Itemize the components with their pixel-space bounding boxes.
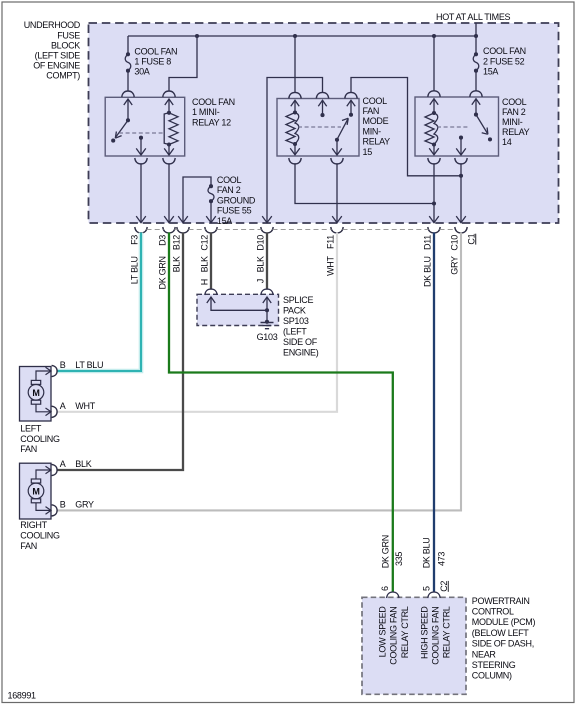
- svg-text:FAN 2: FAN 2: [502, 107, 526, 117]
- relay 15 coil: [290, 100, 300, 155]
- fan M1 pin cups: [52, 365, 58, 417]
- wire H BLK C12 to splice pack: [210, 233, 212, 290]
- svg-text:FAN 2: FAN 2: [217, 185, 241, 195]
- svg-text:FUSE 55: FUSE 55: [217, 206, 252, 216]
- relay 15 NO contact pin: [318, 100, 326, 106]
- svg-text:COOL FAN: COOL FAN: [134, 47, 177, 57]
- svg-text:D3: D3: [157, 235, 167, 246]
- svg-text:B: B: [60, 360, 66, 370]
- relay 12 dashed link: [119, 132, 164, 134]
- svg-text:WHT: WHT: [325, 255, 335, 275]
- fuse F8 (COOL FAN 1 FUSE 8 30A): [125, 52, 131, 72]
- svg-text:2 FUSE 52: 2 FUSE 52: [483, 56, 525, 66]
- relay K12 (COOL FAN 1 MINI-RELAY 12): [105, 97, 185, 156]
- splice pack SP103 box: [197, 294, 279, 325]
- svg-text:RELAY CTRL: RELAY CTRL: [442, 606, 452, 658]
- svg-text:1 MINI-: 1 MINI-: [192, 107, 220, 117]
- relay 12 switch arm: [116, 120, 128, 137]
- svg-text:D11: D11: [422, 235, 432, 250]
- wire B12 to fuse 55 jog: [183, 177, 211, 217]
- svg-text:BLK: BLK: [171, 256, 181, 272]
- svg-text:HOT AT ALL TIMES: HOT AT ALL TIMES: [436, 12, 511, 22]
- junction on bus at x476: [474, 34, 478, 38]
- splice internal arrows: [207, 297, 215, 303]
- underhood fuse block U1 (dashed box, lavender fill): [89, 23, 559, 223]
- fuse F52 (COOL FAN 2 FUSE 52 15A): [473, 52, 479, 72]
- svg-text:(LEFT: (LEFT: [283, 327, 307, 337]
- wire DK BLU D11 to PCM pin 5: [433, 233, 435, 593]
- svg-text:F3: F3: [129, 235, 139, 245]
- junction on bus at x295: [293, 34, 297, 38]
- svg-text:DK GRN: DK GRN: [380, 535, 390, 568]
- svg-text:1 FUSE 8: 1 FUSE 8: [134, 57, 171, 67]
- fuse F55 (COOL FAN 2 GROUND FUSE 55 15A): [208, 184, 214, 203]
- wire J BLK D10 to splice pack: [266, 233, 268, 290]
- svg-text:14: 14: [502, 137, 512, 147]
- svg-text:GROUND: GROUND: [217, 195, 256, 205]
- svg-text:M: M: [32, 487, 39, 497]
- svg-text:5: 5: [421, 586, 431, 591]
- svg-text:LT BLU: LT BLU: [75, 360, 103, 370]
- wire WHT F11 to left fan A: [58, 233, 338, 412]
- svg-text:GRY: GRY: [449, 256, 459, 275]
- svg-text:DK GRN: DK GRN: [157, 256, 167, 289]
- relay 15 switch arm: [337, 119, 348, 139]
- wire GRY C10 to right fan B: [58, 233, 462, 511]
- relay 14 switch arm: [476, 115, 487, 133]
- svg-text:M: M: [32, 388, 39, 398]
- svg-text:ENGINE): ENGINE): [283, 348, 319, 358]
- relay K15 (COOL FAN MODE MIN-RELAY 15): [277, 99, 359, 157]
- svg-text:POWERTRAIN: POWERTRAIN: [472, 596, 530, 606]
- svg-text:BLOCK: BLOCK: [51, 40, 80, 50]
- svg-text:CONTROL: CONTROL: [472, 607, 514, 617]
- relay 15 NC contact pin: [347, 100, 355, 106]
- splice cup D10 side: [261, 289, 273, 295]
- svg-text:RIGHT: RIGHT: [20, 520, 47, 530]
- splice ground junction dot: [265, 320, 269, 324]
- wire fuse 55 to pin C12: [210, 201, 212, 216]
- svg-text:SP103: SP103: [283, 316, 309, 326]
- svg-text:473: 473: [436, 552, 446, 566]
- connector cups at fuse block border row: [135, 227, 467, 233]
- wire fuse 8 to relay 12 pin: [127, 71, 129, 92]
- wire bus to relay 12 coil (jog): [169, 36, 197, 92]
- relay 14 dashed link: [437, 126, 469, 128]
- wire relay 15 coil- to D11 net: [295, 163, 434, 203]
- relay 14 switch pin: [472, 99, 480, 105]
- wire relay 12 coil- to pin D3: [168, 163, 170, 216]
- relay K14 (COOL FAN 2 MINI-RELAY 14): [415, 97, 499, 156]
- svg-text:J BLK: J BLK: [255, 256, 265, 283]
- svg-text:6: 6: [380, 586, 390, 591]
- fan M2 pin cups: [52, 464, 58, 516]
- svg-text:(LEFT SIDE: (LEFT SIDE: [35, 51, 81, 61]
- junction at (434,203.5): [432, 201, 436, 205]
- svg-text:COOL: COOL: [502, 97, 527, 107]
- bus wire B+: [128, 35, 476, 37]
- wire BLK B12 to right fan A: [58, 233, 184, 471]
- svg-text:C10: C10: [449, 235, 459, 251]
- svg-text:NEAR: NEAR: [472, 649, 497, 659]
- wire bus to relay 15 coil: [294, 36, 296, 93]
- svg-text:UNDERHOOD: UNDERHOOD: [24, 20, 81, 30]
- svg-text:STEERING: STEERING: [472, 660, 516, 670]
- svg-text:RELAY: RELAY: [363, 137, 391, 147]
- wire LT BLU F3 to left fan B (halo): [58, 233, 142, 372]
- svg-text:(BELOW LEFT: (BELOW LEFT: [472, 628, 530, 638]
- connector cups above/below relays: [122, 91, 482, 164]
- relay 15 common pin: [336, 140, 338, 155]
- relay 15 dashed link: [298, 126, 341, 128]
- arrows at block border pins: [136, 216, 466, 223]
- wire relay 14 coil- to pin D11: [433, 163, 435, 216]
- svg-text:COMPT): COMPT): [46, 71, 80, 81]
- PCM box (dashed): [362, 597, 466, 694]
- svg-text:RELAY: RELAY: [502, 127, 530, 137]
- svg-text:30A: 30A: [134, 67, 149, 77]
- ground G103 symbol: [261, 323, 274, 329]
- svg-text:C12: C12: [199, 235, 209, 251]
- fan M1 internal wires: [36, 371, 51, 412]
- svg-text:FUSE: FUSE: [57, 30, 80, 40]
- svg-text:MODULE (PCM): MODULE (PCM): [472, 617, 536, 627]
- right cooling fan M2: [20, 463, 58, 519]
- wire relay 14 switch out to pin C10: [460, 163, 462, 216]
- svg-text:COOLING FAN: COOLING FAN: [389, 607, 399, 665]
- svg-text:SPLICE: SPLICE: [283, 295, 314, 305]
- svg-text:DK BLU: DK BLU: [422, 256, 432, 287]
- svg-text:COOL FAN: COOL FAN: [483, 46, 526, 56]
- splice cup C12 side: [205, 289, 217, 295]
- svg-text:COOLING FAN: COOLING FAN: [431, 607, 441, 665]
- relay 14 coil: [429, 99, 439, 155]
- relay 14 output pin: [459, 136, 463, 140]
- svg-text:C1: C1: [466, 233, 476, 244]
- svg-text:F11: F11: [325, 235, 335, 249]
- svg-text:SIDE OF: SIDE OF: [283, 337, 318, 347]
- wire relay 15 NC contact to C10 net: [351, 78, 461, 176]
- svg-text:GRY: GRY: [75, 499, 94, 509]
- wire bus to fuse 52: [475, 36, 477, 53]
- wire relay 15 NO contact to pin D10: [267, 78, 323, 217]
- svg-text:FAN: FAN: [20, 444, 37, 454]
- svg-text:COOLING: COOLING: [20, 434, 60, 444]
- svg-text:COLUMN): COLUMN): [472, 671, 512, 681]
- svg-text:COOL: COOL: [363, 96, 388, 106]
- junction on bus at x434: [432, 34, 436, 38]
- svg-text:FAN: FAN: [20, 541, 37, 551]
- svg-text:PACK: PACK: [283, 306, 306, 316]
- svg-text:H BLK: H BLK: [199, 256, 209, 285]
- svg-text:LEFT: LEFT: [20, 424, 42, 434]
- svg-text:HIGH SPEED: HIGH SPEED: [419, 606, 429, 659]
- relay 12 switch output pin: [139, 136, 143, 140]
- svg-text:OF ENGINE: OF ENGINE: [33, 61, 80, 71]
- svg-text:COOL: COOL: [217, 175, 242, 185]
- svg-text:15A: 15A: [483, 66, 498, 76]
- svg-text:B12: B12: [171, 235, 181, 250]
- svg-text:BLK: BLK: [75, 459, 91, 469]
- svg-text:MODE: MODE: [363, 116, 389, 126]
- svg-text:C2: C2: [439, 581, 449, 592]
- svg-text:DK BLU: DK BLU: [422, 538, 432, 569]
- connector C1 dashed link line: [147, 229, 456, 231]
- svg-text:A: A: [60, 459, 66, 469]
- svg-text:FAN: FAN: [363, 106, 380, 116]
- svg-text:15A: 15A: [217, 216, 232, 226]
- svg-text:RELAY 12: RELAY 12: [192, 117, 231, 127]
- left cooling fan M1: [20, 365, 58, 421]
- PCM cup pin 6: [387, 592, 399, 598]
- svg-text:G103: G103: [257, 332, 278, 342]
- relay 12 pin 30 arrow: [124, 99, 132, 105]
- PCM cup pin 5: [428, 592, 440, 598]
- wire bus to fuse 8: [127, 36, 129, 53]
- wire DK GRN D3 to PCM pin 6: [169, 233, 393, 593]
- svg-text:COOL FAN: COOL FAN: [192, 97, 235, 107]
- svg-text:D10: D10: [255, 235, 265, 251]
- svg-text:15: 15: [363, 147, 373, 157]
- relay 12 coil: [167, 111, 171, 115]
- svg-text:335: 335: [394, 552, 404, 566]
- wire LT BLU F3 to left fan B: [58, 233, 142, 372]
- node HOT AT ALL TIMES feed wire: [475, 23, 477, 36]
- wire relay 12 switch out to pin F3: [140, 163, 142, 216]
- svg-text:LOW SPEED: LOW SPEED: [378, 606, 388, 658]
- wire fuse 52 to relay 14 switch: [475, 71, 477, 92]
- fan M2 internal wires: [36, 470, 51, 510]
- wire relay 15 common to pin F11: [336, 163, 338, 216]
- splice junction dot: [265, 308, 269, 312]
- svg-text:COOLING: COOLING: [20, 530, 60, 540]
- svg-text:WHT: WHT: [75, 401, 95, 411]
- junction at (461,175.8): [459, 174, 463, 178]
- svg-text:A: A: [60, 401, 66, 411]
- splice internal wires: [211, 297, 267, 322]
- wire bus to relay 14 coil: [433, 36, 435, 92]
- svg-text:B: B: [60, 499, 66, 509]
- junction on bus at x197: [195, 34, 199, 38]
- svg-text:LT BLU: LT BLU: [129, 256, 139, 284]
- svg-text:MIN-: MIN-: [363, 126, 382, 136]
- svg-text:MINI-: MINI-: [502, 117, 523, 127]
- svg-text:RELAY CTRL: RELAY CTRL: [400, 606, 410, 658]
- motor M2 symbol: [28, 483, 44, 499]
- svg-text:SIDE OF DASH,: SIDE OF DASH,: [472, 639, 534, 649]
- motor M1 symbol: [28, 385, 44, 401]
- svg-text:168991: 168991: [8, 691, 37, 701]
